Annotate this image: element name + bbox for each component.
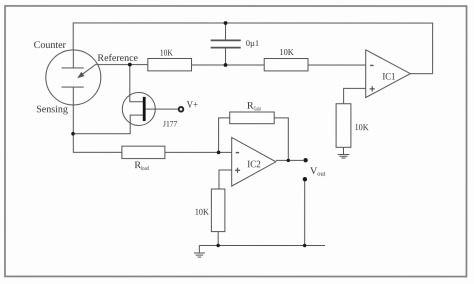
svg-text:Vout: Vout — [310, 166, 326, 178]
wire bottom rail — [199, 244, 325, 246]
node cap top junction — [224, 21, 228, 25]
terminal Vout upper — [303, 158, 307, 162]
wire IC2 output — [276, 159, 303, 161]
counter electrode — [62, 50, 84, 68]
svg-text:10K: 10K — [160, 48, 173, 58]
wire sensing row to Rload — [73, 151, 122, 153]
svg-text:Reference: Reference — [97, 53, 138, 64]
transistor Q1 source leg — [73, 115, 143, 134]
wire feedback node up to Rgain — [219, 118, 230, 153]
wire IC1 noninverting input — [344, 88, 366, 103]
wire Rgain to output node — [274, 118, 288, 161]
wire top rail — [73, 23, 432, 74]
node R4 bottom junction — [216, 244, 219, 247]
capacitor C1 stem top — [225, 23, 227, 40]
svg-text:0µ1: 0µ1 — [246, 38, 259, 48]
svg-text:Sensing: Sensing — [36, 104, 68, 115]
svg-text:Counter: Counter — [34, 40, 67, 51]
svg-text:Rload: Rload — [134, 160, 148, 172]
terminal V+ open circle — [179, 107, 184, 112]
ground G2 — [194, 245, 205, 257]
wire reference node to R1 — [96, 64, 148, 66]
reference electrode arrow — [77, 64, 96, 78]
wire IC2 noninverting input — [219, 170, 232, 189]
svg-text:10K: 10K — [279, 47, 294, 57]
op-amp IC2 minus sign — [236, 152, 239, 154]
capacitor C1 plates — [211, 40, 241, 47]
node Rgain output junction — [287, 159, 290, 162]
ground G1 — [338, 147, 350, 158]
terminal Vout lower — [303, 177, 307, 181]
wire Vout lower terminal to bottom rail — [304, 181, 306, 245]
wire Rload to IC2 inverting input — [165, 151, 232, 153]
resistor Rload body — [122, 146, 165, 158]
capacitor C1 stem bottom — [225, 48, 227, 65]
svg-text:RGain: RGain — [247, 101, 261, 113]
op-amp IC1 body — [366, 50, 411, 98]
resistor R3 10K body — [336, 104, 351, 148]
node cap bottom junction — [224, 63, 228, 67]
node Vout return junction — [303, 244, 306, 247]
sensor cell S1 body — [46, 50, 101, 105]
resistor R1 10K body — [148, 58, 192, 70]
svg-text:IC2: IC2 — [247, 159, 260, 170]
transistor Q1 gate wire to V+ — [146, 108, 179, 110]
resistor Rgain body — [230, 112, 275, 124]
svg-text:J177: J177 — [163, 119, 177, 129]
svg-text:V+: V+ — [187, 100, 199, 111]
svg-text:10K: 10K — [195, 207, 209, 217]
node sensing junction — [71, 132, 75, 136]
resistor R2 10K body — [264, 59, 308, 71]
op-amp IC2 plus sign — [235, 168, 240, 173]
resistor R4 10K body — [211, 189, 225, 232]
node IC2 feedback junction — [217, 151, 221, 155]
transistor Q1 body circle — [122, 92, 155, 125]
wire R1 to cap node — [192, 64, 226, 66]
op-amp IC2 body — [232, 137, 276, 186]
svg-text:IC1: IC1 — [382, 72, 395, 83]
transistor Q1 channel bar — [143, 97, 146, 121]
wire reference node down to Q1 drain — [130, 65, 143, 102]
op-amp IC1 plus sign — [370, 86, 375, 91]
wire R4 to bottom rail — [217, 232, 219, 246]
wire R2 to IC1 inverting input — [308, 64, 366, 66]
op-amp IC1 minus sign — [370, 64, 373, 66]
sensing electrode — [61, 87, 83, 152]
node reference junction — [128, 63, 132, 67]
wire IC1 output feedback — [410, 73, 432, 75]
wire cap node to R2 — [226, 64, 265, 66]
svg-text:10K: 10K — [355, 122, 369, 132]
